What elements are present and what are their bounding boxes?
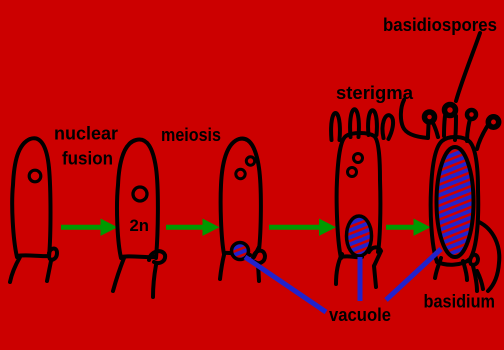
svg-text:2n: 2n — [130, 216, 150, 235]
svg-text:basidium: basidium — [424, 292, 496, 312]
svg-text:basidiospores: basidiospores — [383, 15, 497, 35]
svg-text:nuclear: nuclear — [54, 124, 118, 144]
svg-text:vacuole: vacuole — [329, 305, 391, 325]
svg-text:fusion: fusion — [62, 149, 113, 169]
svg-text:meiosis: meiosis — [161, 125, 221, 145]
svg-text:sterigma: sterigma — [336, 83, 414, 103]
